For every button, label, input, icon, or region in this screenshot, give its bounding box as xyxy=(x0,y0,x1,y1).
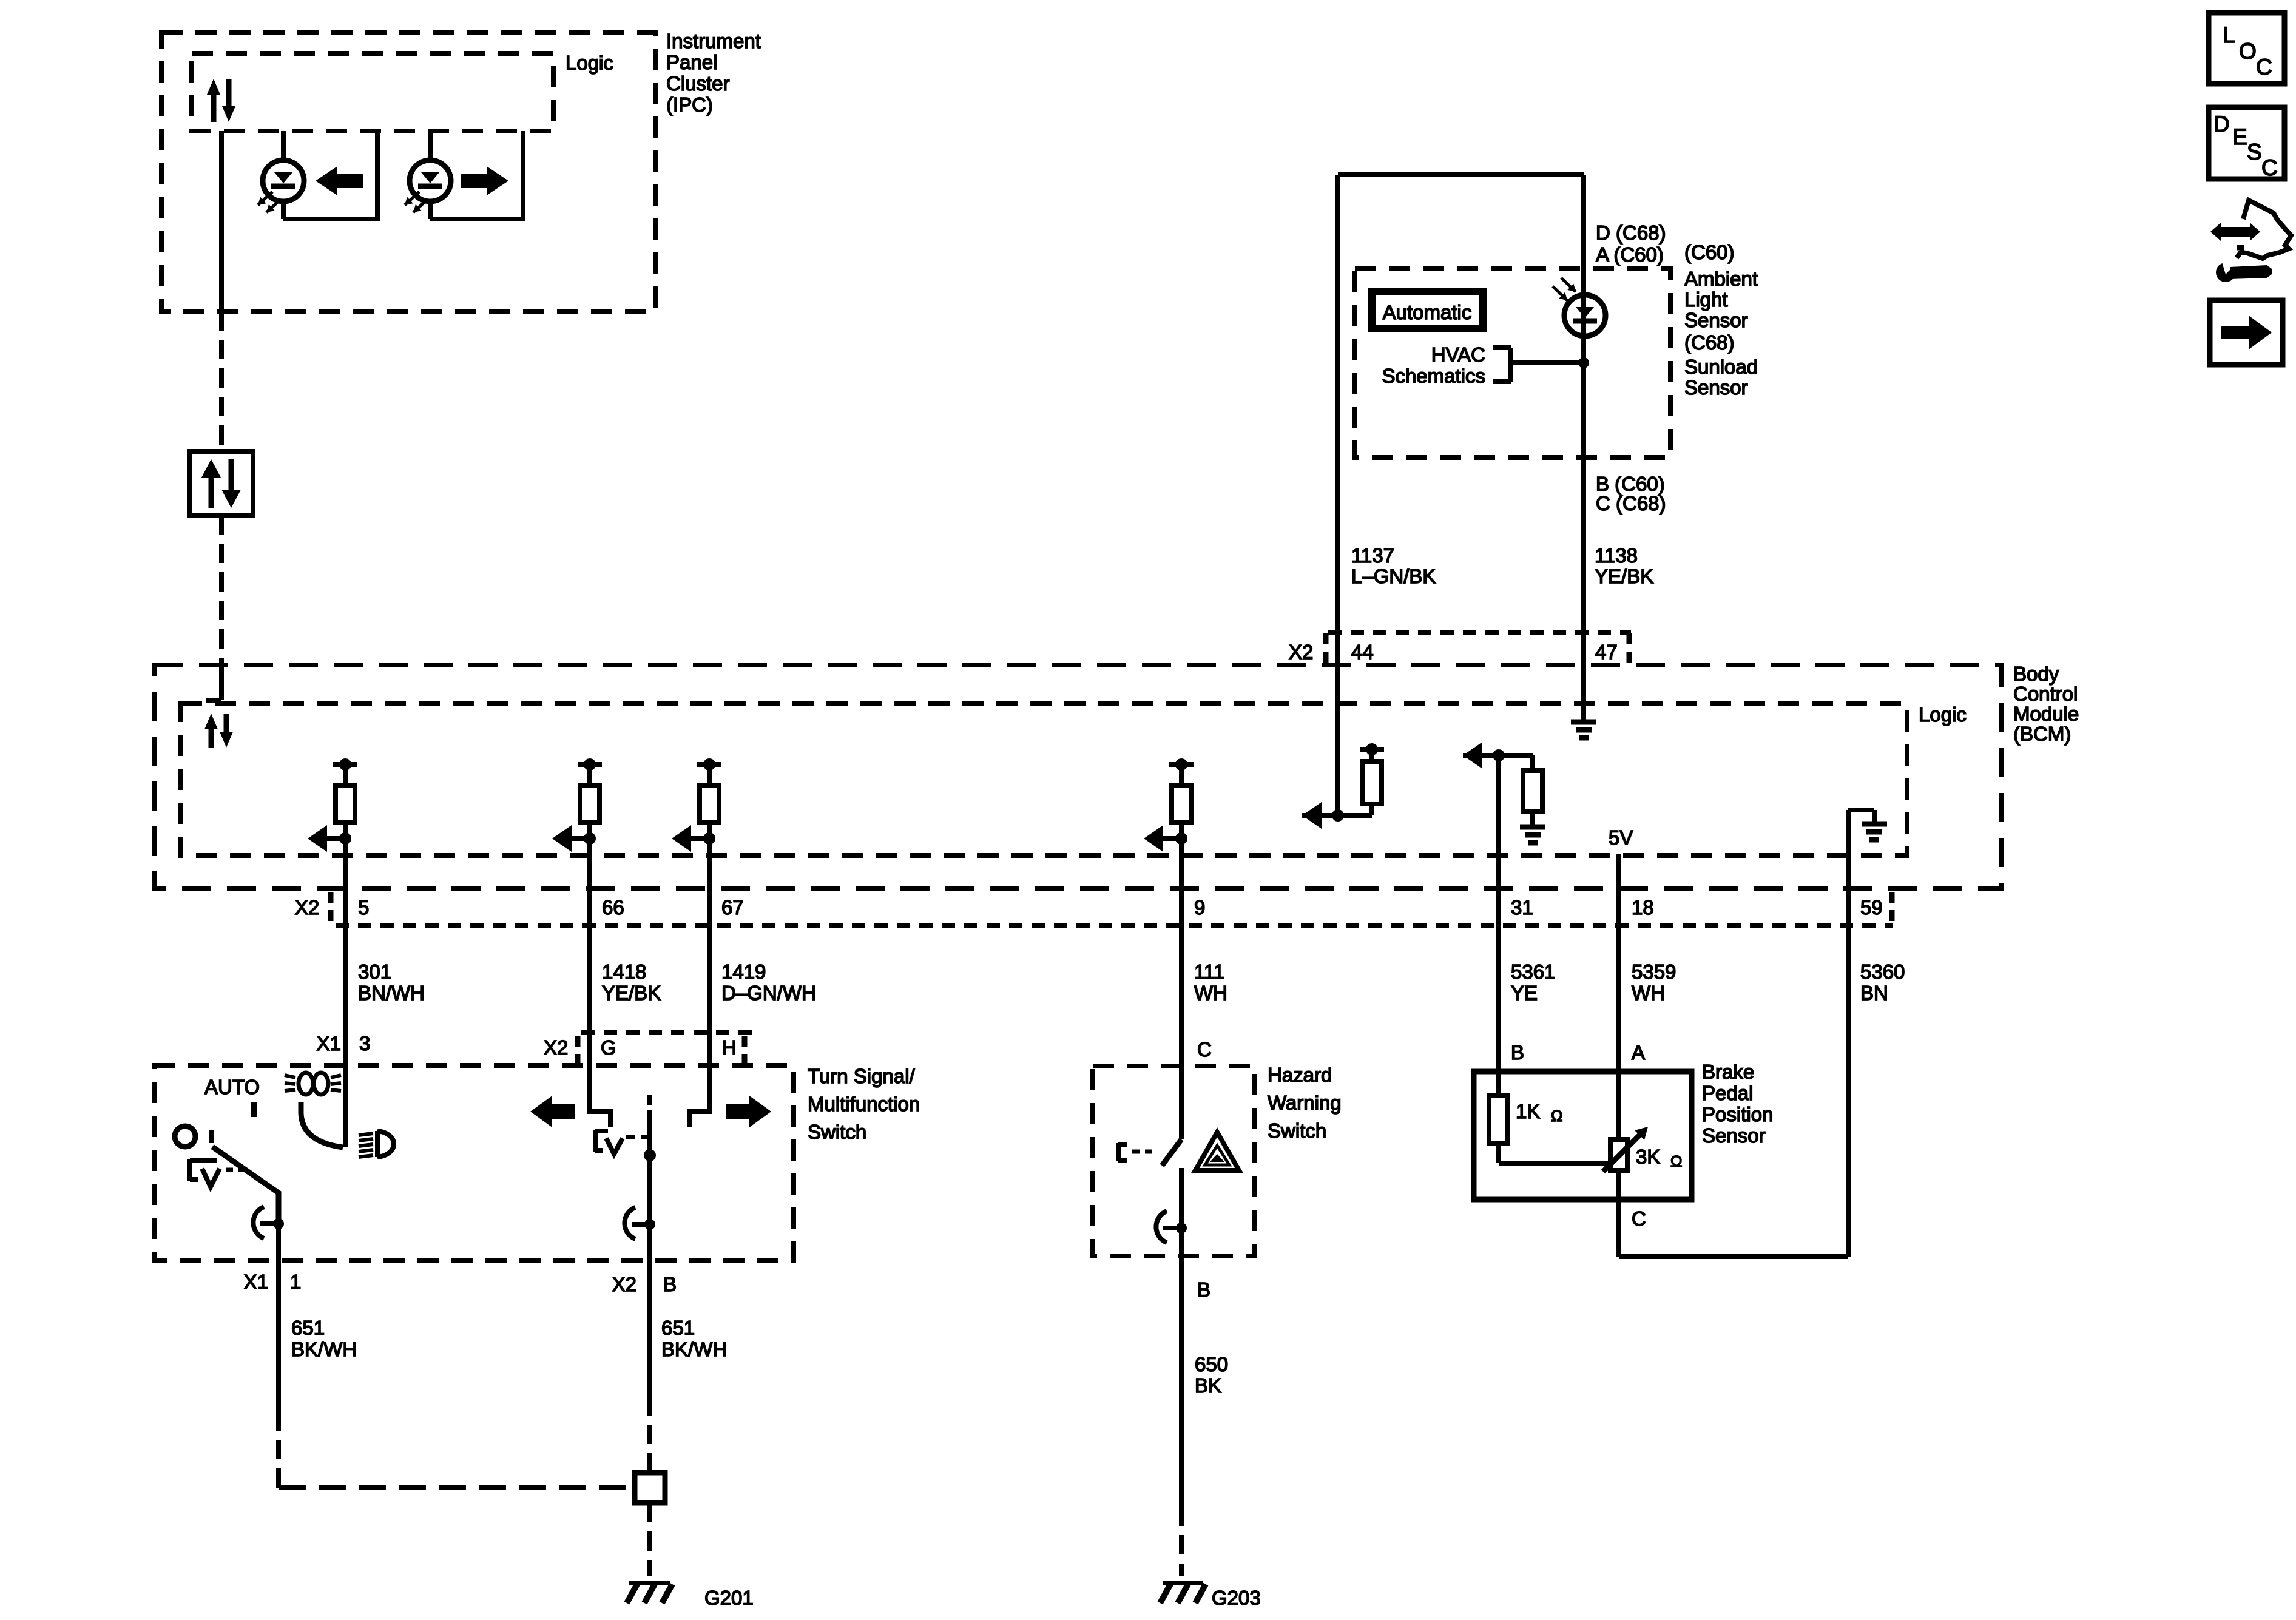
svg-text:(C60): (C60) xyxy=(1684,241,1735,263)
svg-text:BK/WH: BK/WH xyxy=(291,1338,357,1360)
svg-text:Turn Signal/: Turn Signal/ xyxy=(808,1065,916,1087)
svg-text:1418: 1418 xyxy=(602,960,646,983)
svg-text:H: H xyxy=(722,1036,737,1059)
svg-text:Schematics: Schematics xyxy=(1382,365,1485,387)
svg-text:Sensor: Sensor xyxy=(1684,309,1748,331)
svg-text:Control: Control xyxy=(2013,683,2078,705)
svg-text:Automatic: Automatic xyxy=(1383,301,1472,323)
svg-text:BK/WH: BK/WH xyxy=(661,1338,727,1360)
svg-text:D–GN/WH: D–GN/WH xyxy=(721,982,816,1004)
svg-text:Sensor: Sensor xyxy=(1684,376,1748,399)
svg-text:X2: X2 xyxy=(544,1036,568,1059)
svg-text:Sensor: Sensor xyxy=(1702,1124,1766,1147)
svg-text:D (C68): D (C68) xyxy=(1596,221,1666,244)
svg-text:HVAC: HVAC xyxy=(1431,343,1485,366)
svg-text:BN: BN xyxy=(1860,982,1888,1004)
svg-text:A: A xyxy=(1632,1041,1645,1064)
svg-text:Brake: Brake xyxy=(1702,1061,1754,1083)
svg-text:5: 5 xyxy=(358,896,369,919)
svg-text:B: B xyxy=(1197,1278,1210,1301)
svg-text:651: 651 xyxy=(661,1317,695,1339)
svg-text:L: L xyxy=(2223,22,2235,47)
svg-text:WH: WH xyxy=(1194,982,1227,1004)
svg-text:Switch: Switch xyxy=(1268,1119,1326,1142)
svg-text:5V: 5V xyxy=(1609,826,1633,849)
svg-text:Sunload: Sunload xyxy=(1684,356,1758,378)
svg-text:(C68): (C68) xyxy=(1684,331,1735,354)
svg-text:G203: G203 xyxy=(1212,1587,1261,1609)
svg-text:AUTO: AUTO xyxy=(204,1076,260,1098)
svg-text:Warning: Warning xyxy=(1268,1092,1342,1114)
svg-text:Module: Module xyxy=(2013,703,2079,725)
svg-text:A (C60): A (C60) xyxy=(1596,243,1664,266)
svg-text:5361: 5361 xyxy=(1511,960,1555,983)
svg-text:Multifunction: Multifunction xyxy=(808,1093,920,1115)
svg-text:Cluster: Cluster xyxy=(666,72,730,95)
svg-text:5359: 5359 xyxy=(1632,960,1676,983)
svg-text:S: S xyxy=(2247,140,2262,164)
svg-text:O: O xyxy=(2239,39,2257,64)
svg-text:D: D xyxy=(2213,112,2230,137)
svg-text:BK: BK xyxy=(1195,1374,1221,1397)
svg-text:111: 111 xyxy=(1194,960,1224,983)
svg-text:Logic: Logic xyxy=(1919,703,1967,726)
svg-text:C: C xyxy=(1632,1207,1646,1230)
svg-text:YE: YE xyxy=(1511,982,1538,1004)
svg-text:B: B xyxy=(1511,1041,1524,1064)
svg-text:C (C68): C (C68) xyxy=(1596,492,1666,515)
svg-text:1K: 1K xyxy=(1516,1100,1540,1122)
svg-text:C: C xyxy=(2261,155,2278,180)
svg-text:WH: WH xyxy=(1632,982,1665,1004)
svg-text:5360: 5360 xyxy=(1860,960,1905,983)
svg-text:BN/WH: BN/WH xyxy=(358,982,425,1004)
svg-text:C: C xyxy=(2256,55,2272,79)
svg-text:650: 650 xyxy=(1195,1353,1228,1375)
svg-text:X2: X2 xyxy=(612,1273,636,1295)
svg-text:18: 18 xyxy=(1632,896,1654,919)
svg-text:Panel: Panel xyxy=(666,51,717,73)
svg-text:47: 47 xyxy=(1595,641,1618,663)
svg-text:X2: X2 xyxy=(1289,641,1313,663)
svg-text:Instrument: Instrument xyxy=(666,30,761,52)
svg-text:G201: G201 xyxy=(704,1587,754,1609)
svg-text:X1: X1 xyxy=(244,1271,268,1293)
svg-text:1419: 1419 xyxy=(721,960,766,983)
svg-text:Ω: Ω xyxy=(1551,1107,1562,1125)
svg-text:651: 651 xyxy=(291,1317,325,1339)
svg-text:Ω: Ω xyxy=(1670,1152,1682,1170)
svg-text:66: 66 xyxy=(602,896,624,919)
svg-text:(IPC): (IPC) xyxy=(666,93,713,116)
svg-text:1: 1 xyxy=(290,1271,301,1293)
svg-text:Pedal: Pedal xyxy=(1702,1082,1753,1104)
svg-text:YE/BK: YE/BK xyxy=(1595,565,1653,587)
svg-text:Light: Light xyxy=(1684,288,1728,311)
svg-text:Ambient: Ambient xyxy=(1684,268,1758,290)
svg-text:X1: X1 xyxy=(317,1032,341,1055)
svg-text:L–GN/BK: L–GN/BK xyxy=(1351,565,1436,587)
svg-text:3K: 3K xyxy=(1636,1146,1660,1168)
svg-text:Logic: Logic xyxy=(566,52,613,74)
svg-text:Hazard: Hazard xyxy=(1268,1064,1332,1086)
svg-text:1138: 1138 xyxy=(1595,544,1638,567)
svg-text:(BCM): (BCM) xyxy=(2013,723,2071,745)
svg-text:C: C xyxy=(1197,1038,1212,1061)
svg-text:X2: X2 xyxy=(295,896,319,919)
svg-text:Switch: Switch xyxy=(808,1121,866,1143)
svg-text:E: E xyxy=(2232,124,2247,149)
svg-text:G: G xyxy=(601,1036,616,1059)
svg-text:31: 31 xyxy=(1511,896,1533,919)
svg-text:9: 9 xyxy=(1194,896,1205,919)
svg-text:67: 67 xyxy=(721,896,744,919)
svg-text:301: 301 xyxy=(358,960,391,983)
svg-text:YE/BK: YE/BK xyxy=(602,982,661,1004)
svg-text:Position: Position xyxy=(1702,1103,1773,1126)
svg-text:59: 59 xyxy=(1860,896,1883,919)
svg-text:44: 44 xyxy=(1351,641,1374,663)
svg-text:1137: 1137 xyxy=(1351,544,1394,567)
svg-text:Body: Body xyxy=(2013,663,2059,685)
svg-text:B: B xyxy=(663,1273,677,1295)
svg-text:3: 3 xyxy=(359,1032,370,1055)
